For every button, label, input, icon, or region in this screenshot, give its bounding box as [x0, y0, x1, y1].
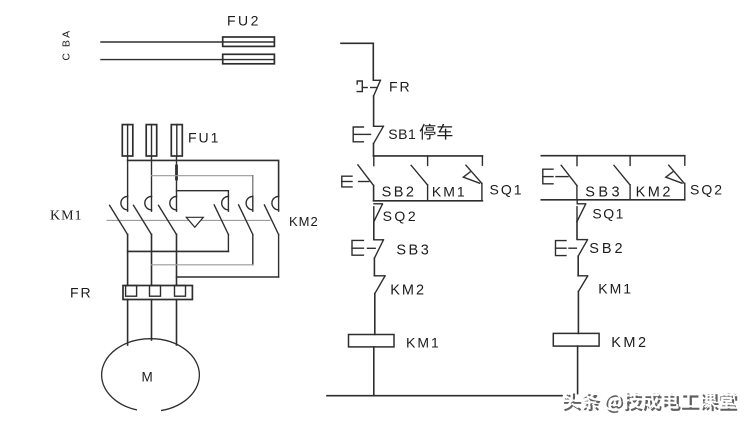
wire FR to motor 1 [127, 300, 129, 346]
limit switch SQ2 (NC) [374, 204, 383, 240]
limit switch SQ1' (NC) [577, 200, 586, 239]
svg-text:KM1: KM1 [432, 184, 467, 200]
wire crossover tap phase3 to KM2 contact1 [177, 191, 229, 197]
wire KM2 out3 crossover to phase3 [177, 276, 279, 278]
pushbutton SB1 (NC stop) [353, 126, 383, 156]
limit switch SQ1 (NO) [463, 156, 482, 201]
wire FR to motor 2 [151, 300, 153, 341]
svg-text:KM2: KM2 [611, 335, 648, 351]
wire crossover tap phase2 to KM2 contact2 [152, 175, 253, 177]
svg-text:KM1: KM1 [50, 209, 83, 224]
pushbutton SB2 (NO) [342, 156, 374, 201]
svg-text:SB1: SB1 [388, 126, 416, 142]
svg-text:SQ1: SQ1 [490, 182, 524, 198]
svg-text:SQ2: SQ2 [383, 208, 419, 224]
wire KM2 out1 crossover to phase1 [128, 250, 229, 252]
junction blob on phase 3 wire [175, 166, 178, 179]
fuse FU1 element 2 [146, 125, 157, 156]
contact KM1 interlock (NC) [578, 276, 588, 334]
contactor KM1 main contact 2 [134, 196, 152, 285]
svg-text:KM1: KM1 [598, 281, 633, 297]
svg-text:KM2: KM2 [289, 214, 319, 229]
watermark 头条 @技成电工课堂 [562, 391, 738, 413]
wire FR to motor 3 [176, 300, 178, 346]
svg-text:A: A [61, 31, 73, 38]
svg-text:SQ2: SQ2 [690, 182, 724, 198]
wire crossover tap phase1 to KM2 contact3 [128, 160, 279, 196]
svg-text:SB2: SB2 [589, 241, 625, 257]
contact KM1 aux (NO) [411, 156, 427, 201]
contact KM2 interlock (NC) [374, 276, 385, 335]
node bus branch1 top [374, 155, 483, 157]
fuse FU1 wires through [127, 125, 129, 197]
svg-text:M: M [142, 370, 153, 385]
thermal contact FR [357, 80, 380, 125]
svg-text:FR: FR [389, 79, 412, 95]
dashed mechanical linkage [107, 219, 270, 221]
wire phase C to FU2 [101, 59, 274, 61]
svg-text:FU2: FU2 [227, 13, 261, 29]
contactor KM2 main contact 2 [239, 196, 253, 264]
contact KM2 aux (NO) [614, 156, 630, 200]
node bus branch2 bottom [541, 199, 685, 201]
coil KM1 [349, 335, 395, 347]
delta linkage triangle [186, 217, 203, 227]
contactor KM2 main contact 1 [214, 196, 228, 251]
fuse FU2 element a [223, 37, 275, 46]
motor M [102, 339, 200, 412]
svg-text:SQ1: SQ1 [592, 206, 625, 222]
svg-text:B: B [61, 40, 73, 47]
pushbutton SB3' (NO) [543, 156, 577, 200]
fuse FU1 element 1 [122, 125, 133, 156]
node bottom bus [327, 395, 562, 397]
watermark white layer [562, 391, 579, 409]
fuse FU1 element 3 [171, 125, 182, 156]
contactor KM1 main contact 3 [159, 196, 177, 285]
wire control feed [341, 43, 373, 80]
limit switch SQ2' (NO) [666, 156, 685, 200]
svg-text:SB3: SB3 [396, 243, 431, 259]
fuse FU2 element b [223, 54, 275, 64]
pushbutton SB2' (NC) [556, 240, 588, 276]
svg-text:C: C [61, 53, 73, 61]
svg-text:KM1: KM1 [406, 335, 441, 351]
contactor KM1 main contact 1 [110, 196, 128, 285]
svg-text:FR: FR [70, 285, 93, 301]
svg-text:KM2: KM2 [390, 283, 426, 299]
node bus branch1 bottom [374, 200, 483, 202]
svg-text:SB3: SB3 [585, 185, 623, 201]
svg-text:KM2: KM2 [636, 185, 673, 201]
watermark shadow layer [564, 394, 581, 412]
contactor KM2 main contact 3 [264, 196, 278, 277]
svg-text:FU1: FU1 [188, 130, 220, 146]
svg-text:SB2: SB2 [382, 185, 417, 201]
pushbutton SB3 (NC) [352, 240, 383, 276]
wire KM2 out2 crossover to phase2 [152, 264, 253, 266]
coil KM2 [553, 333, 599, 346]
label 停车 (stop) glyph paths [420, 124, 436, 140]
thermal relay FR heater block [123, 286, 192, 300]
node bus branch2 top [541, 155, 685, 157]
wire phase A to FU2 [101, 41, 274, 43]
